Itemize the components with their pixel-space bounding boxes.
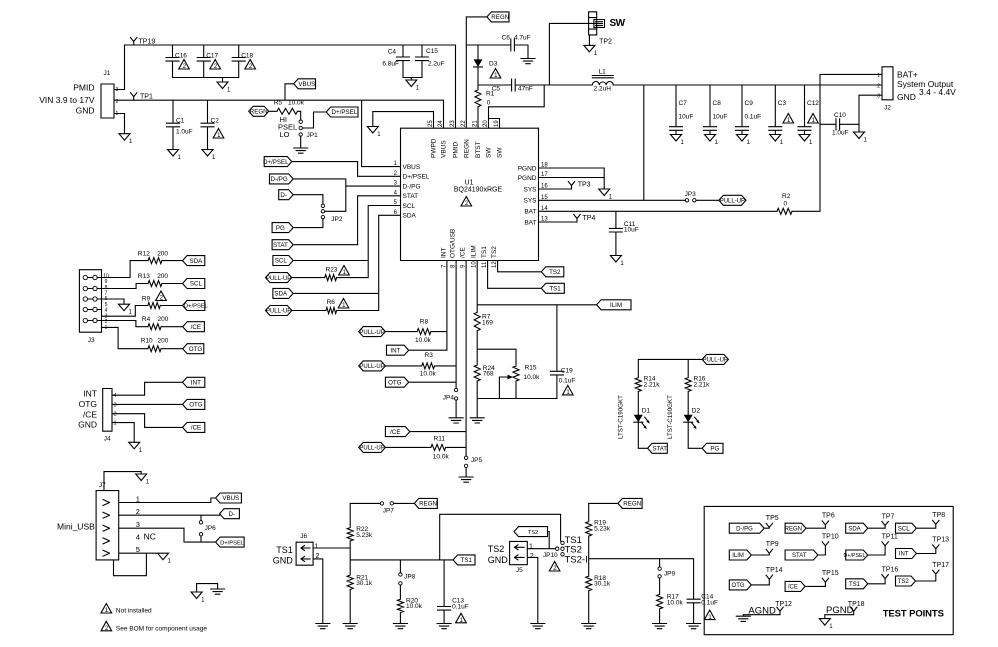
svg-text:SYS: SYS [523, 186, 537, 193]
svg-text:SCL: SCL [275, 258, 288, 265]
svg-text:D+/PSEL: D+/PSEL [403, 174, 430, 181]
svg-text:SW: SW [610, 18, 626, 29]
svg-text:ILIM: ILIM [471, 245, 478, 258]
svg-text:GND: GND [76, 106, 95, 116]
svg-text:PGND: PGND [518, 165, 537, 172]
svg-text:169: 169 [482, 320, 493, 327]
svg-text:ILIM: ILIM [732, 553, 744, 559]
svg-text:2: 2 [136, 507, 140, 516]
svg-text:Mini_USB: Mini_USB [57, 522, 95, 532]
svg-text:0: 0 [487, 100, 491, 107]
svg-text:PMID: PMID [453, 141, 460, 158]
svg-text:R2: R2 [782, 193, 791, 200]
svg-text:1: 1 [877, 73, 880, 79]
svg-text:GND: GND [488, 555, 509, 565]
svg-text:25: 25 [428, 120, 434, 127]
svg-text:C1: C1 [176, 118, 185, 125]
svg-text:2: 2 [877, 84, 880, 90]
svg-text:PULL-UP: PULL-UP [266, 309, 291, 315]
svg-text:23: 23 [450, 120, 456, 127]
svg-text:OTG: OTG [732, 583, 745, 589]
svg-text:10uF: 10uF [679, 114, 694, 121]
svg-text:TS1: TS1 [481, 246, 488, 258]
svg-text:U1: U1 [465, 180, 474, 187]
svg-text:200: 200 [158, 338, 169, 345]
svg-text:TP10: TP10 [822, 534, 839, 541]
svg-text:R10: R10 [141, 338, 153, 345]
svg-text:C10: C10 [834, 112, 846, 119]
svg-text:PULL-UP: PULL-UP [266, 276, 291, 282]
svg-text:R15: R15 [525, 364, 537, 371]
svg-text:PG: PG [710, 446, 719, 453]
svg-text:PULL-UP: PULL-UP [703, 358, 728, 364]
svg-text:SCL: SCL [898, 526, 910, 532]
svg-text:INT: INT [191, 380, 201, 387]
svg-text:SDA: SDA [848, 526, 860, 532]
svg-text:PG: PG [276, 225, 285, 232]
svg-text:VBUS: VBUS [298, 81, 315, 88]
svg-text:PMID: PMID [73, 83, 94, 93]
svg-text:TP13: TP13 [932, 537, 949, 544]
svg-text:JP2: JP2 [331, 216, 343, 223]
svg-text:JP8: JP8 [404, 574, 416, 581]
svg-text:2.21k: 2.21k [694, 382, 711, 389]
svg-text:VBUS: VBUS [222, 495, 239, 502]
svg-text:13: 13 [541, 217, 548, 223]
svg-text:C6: C6 [502, 35, 511, 42]
svg-text:BQ24190xRGE: BQ24190xRGE [454, 187, 503, 194]
svg-text:1.0uF: 1.0uF [176, 129, 193, 136]
svg-text:TS2: TS2 [488, 544, 505, 554]
svg-text:REGN: REGN [463, 139, 470, 158]
svg-text:0.1uF: 0.1uF [452, 603, 469, 610]
svg-text:R12: R12 [138, 251, 150, 258]
svg-text:R13: R13 [138, 273, 150, 280]
svg-text:JP9: JP9 [664, 570, 676, 577]
svg-text:15: 15 [541, 195, 548, 201]
svg-text:REGN: REGN [419, 501, 437, 508]
svg-text:/CE: /CE [390, 429, 400, 436]
svg-text:TP2: TP2 [599, 39, 612, 46]
svg-text:JP5: JP5 [471, 457, 483, 464]
svg-text:OTG: OTG [388, 379, 402, 386]
svg-text:4: 4 [114, 393, 117, 399]
svg-text:10uF: 10uF [624, 227, 639, 234]
svg-text:J2: J2 [884, 105, 891, 112]
svg-text:OTG: OTG [189, 402, 203, 409]
svg-text:TP9: TP9 [766, 541, 779, 548]
svg-text:/CE: /CE [191, 324, 201, 331]
svg-text:GND: GND [78, 419, 97, 429]
svg-text:D2: D2 [692, 408, 701, 415]
svg-text:JP10: JP10 [543, 552, 558, 559]
svg-text:2: 2 [530, 553, 534, 560]
svg-text:D-/PG: D-/PG [403, 183, 421, 190]
svg-text:J7: J7 [99, 482, 106, 489]
svg-text:J4: J4 [104, 435, 111, 442]
svg-text:D+/PSEL: D+/PSEL [220, 540, 245, 546]
svg-text:TP11: TP11 [882, 534, 898, 541]
svg-text:TS2: TS2 [528, 530, 538, 536]
svg-text:J1: J1 [104, 70, 111, 77]
svg-text:SCL: SCL [403, 203, 416, 210]
svg-text:D+/PSEL: D+/PSEL [332, 109, 358, 116]
svg-text:22: 22 [461, 120, 467, 127]
svg-text:R11: R11 [434, 436, 446, 443]
svg-text:OTG: OTG [189, 346, 203, 353]
svg-text:SW: SW [486, 147, 493, 158]
svg-text:C3: C3 [778, 100, 787, 107]
svg-text:STAT: STAT [403, 193, 419, 200]
svg-text:2: 2 [116, 99, 119, 105]
svg-text:0.1uF: 0.1uF [559, 377, 576, 384]
svg-text:1: 1 [136, 494, 140, 503]
svg-text:TP7: TP7 [882, 513, 895, 520]
svg-text:BAT: BAT [524, 209, 536, 216]
svg-text:0: 0 [784, 201, 788, 208]
svg-text:TP18: TP18 [848, 601, 865, 608]
svg-text:R4: R4 [142, 316, 151, 323]
svg-text:L1: L1 [599, 69, 607, 76]
svg-text:2.21k: 2.21k [644, 382, 661, 389]
svg-text:REGN: REGN [250, 109, 268, 116]
svg-text:3: 3 [116, 87, 119, 93]
svg-text:PULL-UP: PULL-UP [359, 364, 384, 370]
svg-text:14: 14 [541, 206, 548, 212]
svg-text:Not installed: Not installed [116, 608, 152, 615]
svg-text:D-: D- [228, 511, 235, 518]
svg-text:VBUS: VBUS [403, 164, 421, 171]
svg-text:6.8uF: 6.8uF [382, 61, 399, 68]
svg-text:STAT: STAT [652, 447, 667, 453]
svg-text:5: 5 [136, 545, 140, 554]
svg-text:2.2uH: 2.2uH [594, 86, 612, 93]
svg-text:5.23k: 5.23k [356, 532, 373, 539]
svg-text:10.0k: 10.0k [415, 337, 432, 344]
svg-text:R23: R23 [326, 267, 338, 274]
svg-text:SDA: SDA [403, 213, 417, 220]
svg-text:C9: C9 [745, 100, 754, 107]
svg-text:20: 20 [483, 120, 489, 127]
svg-text:JP3: JP3 [685, 191, 697, 198]
svg-text:2.2uF: 2.2uF [428, 61, 445, 68]
svg-text:PWPD: PWPD [431, 138, 438, 158]
svg-text:1: 1 [105, 325, 108, 331]
svg-text:TEST POINTS: TEST POINTS [883, 609, 944, 620]
svg-text:TP15: TP15 [822, 570, 839, 577]
svg-text:D-/PG: D-/PG [736, 526, 753, 532]
svg-text:12: 12 [492, 261, 498, 268]
svg-text:REGN: REGN [623, 501, 641, 508]
svg-text:TP14: TP14 [766, 567, 783, 574]
svg-text:PGND: PGND [518, 175, 537, 182]
svg-text:INT: INT [440, 248, 447, 259]
svg-text:/CE: /CE [460, 247, 467, 259]
svg-text:J6: J6 [300, 533, 307, 540]
svg-text:C5: C5 [492, 86, 501, 93]
svg-text:R3: R3 [425, 352, 434, 359]
svg-text:/CE: /CE [83, 409, 98, 419]
svg-text:C15: C15 [426, 48, 438, 55]
svg-text:JP6: JP6 [205, 525, 217, 532]
svg-text:REGN: REGN [785, 526, 802, 532]
svg-text:C18: C18 [241, 53, 253, 60]
svg-text:SCL: SCL [190, 281, 203, 288]
svg-text:TP8: TP8 [932, 512, 945, 519]
svg-text:10: 10 [472, 261, 478, 268]
svg-text:3: 3 [136, 520, 140, 529]
svg-text:D+/PSEL: D+/PSEL [184, 304, 209, 310]
svg-text:2: 2 [316, 553, 320, 560]
svg-text:TP16: TP16 [882, 566, 899, 573]
svg-text:J5: J5 [516, 567, 523, 574]
svg-text:R6: R6 [327, 299, 336, 306]
svg-text:TS2: TS2 [549, 269, 561, 276]
svg-text:200: 200 [157, 251, 168, 258]
svg-text:D-/PG: D-/PG [270, 176, 287, 183]
svg-text:TS1: TS1 [276, 545, 293, 555]
svg-text:INT: INT [899, 552, 909, 558]
svg-text:TP17: TP17 [932, 562, 949, 569]
svg-text:TS1: TS1 [849, 582, 861, 588]
svg-text:1: 1 [315, 544, 319, 551]
svg-text:C16: C16 [175, 53, 187, 60]
svg-text:LTST-C190GKT: LTST-C190GKT [617, 395, 624, 439]
svg-text:768: 768 [483, 371, 494, 378]
svg-text:GND: GND [897, 92, 916, 102]
svg-text:See BOM for component usage: See BOM for component usage [116, 625, 207, 632]
svg-text:10.0k: 10.0k [433, 454, 450, 461]
svg-text:0.1uF: 0.1uF [745, 114, 762, 121]
svg-text:INT: INT [83, 389, 97, 399]
svg-text:30.1k: 30.1k [594, 581, 611, 588]
svg-text:10.0k: 10.0k [406, 603, 423, 610]
svg-text:D+/PSEL: D+/PSEL [844, 553, 866, 559]
svg-text:10.0k: 10.0k [667, 599, 684, 606]
svg-text:19: 19 [494, 120, 500, 127]
svg-text:JP1: JP1 [307, 132, 319, 139]
svg-text:11: 11 [482, 261, 488, 268]
svg-text:1: 1 [114, 421, 117, 427]
svg-text:10.0k: 10.0k [288, 100, 305, 107]
svg-text:10.0k: 10.0k [524, 374, 541, 381]
svg-text:J3: J3 [88, 337, 95, 344]
svg-text:10.0k: 10.0k [420, 371, 437, 378]
svg-text:C19: C19 [561, 367, 573, 374]
svg-text:JP7: JP7 [383, 507, 395, 514]
svg-text:NC: NC [144, 532, 156, 542]
svg-text:TP3: TP3 [578, 182, 591, 189]
svg-text:AGND: AGND [748, 606, 776, 617]
svg-text:0.1uF: 0.1uF [701, 600, 718, 607]
svg-text:/CE: /CE [191, 425, 201, 432]
svg-text:BTST: BTST [475, 141, 482, 158]
svg-text:TS1: TS1 [461, 557, 473, 564]
svg-text:SDA: SDA [190, 258, 204, 265]
svg-text:REGN: REGN [491, 14, 509, 21]
svg-text:200: 200 [158, 316, 169, 323]
svg-text:C17: C17 [206, 53, 218, 60]
svg-text:D3: D3 [489, 61, 498, 68]
svg-text:INT: INT [390, 347, 400, 354]
svg-text:3.4 - 4.4V: 3.4 - 4.4V [919, 87, 956, 97]
svg-text:/CE: /CE [788, 585, 798, 591]
svg-text:LTST-C190GKT: LTST-C190GKT [667, 395, 674, 439]
svg-text:PULL-UP: PULL-UP [359, 330, 384, 336]
svg-text:VIN 3.9 to 17V: VIN 3.9 to 17V [39, 95, 95, 105]
svg-text:1: 1 [529, 544, 533, 551]
svg-text:200: 200 [157, 273, 168, 280]
svg-text:4.7uF: 4.7uF [514, 35, 531, 42]
svg-text:D+/PSEL: D+/PSEL [263, 159, 289, 166]
svg-text:PULL-UP: PULL-UP [720, 199, 745, 205]
svg-text:1.0uF: 1.0uF [832, 130, 849, 137]
svg-text:TS2: TS2 [491, 246, 498, 258]
svg-text:TP4: TP4 [583, 215, 596, 222]
svg-text:16: 16 [541, 184, 548, 190]
svg-text:SW: SW [497, 147, 504, 158]
svg-text:C12: C12 [807, 100, 819, 107]
svg-text:JP4: JP4 [443, 394, 455, 401]
svg-text:D1: D1 [642, 408, 651, 415]
svg-text:C2: C2 [211, 118, 220, 125]
svg-text:STAT: STAT [792, 553, 807, 559]
svg-text:4: 4 [136, 533, 140, 542]
svg-text:5.23k: 5.23k [594, 525, 611, 532]
svg-text:R8: R8 [420, 319, 429, 326]
svg-text:30.1k: 30.1k [356, 580, 373, 587]
svg-text:10uF: 10uF [713, 114, 728, 121]
svg-text:17: 17 [541, 172, 548, 178]
svg-text:C7: C7 [679, 100, 688, 107]
svg-text:TP19: TP19 [139, 39, 156, 46]
svg-text:OTG/USB: OTG/USB [450, 229, 457, 258]
svg-text:LO: LO [280, 130, 290, 139]
svg-text:VBUS: VBUS [441, 140, 448, 158]
svg-text:21: 21 [473, 120, 479, 127]
svg-text:TP6: TP6 [822, 513, 835, 520]
svg-text:SYS: SYS [523, 198, 537, 205]
svg-text:TS2-I: TS2-I [565, 554, 588, 565]
svg-text:C8: C8 [713, 100, 722, 107]
svg-text:R5: R5 [274, 100, 283, 107]
svg-text:1: 1 [116, 111, 119, 117]
svg-text:ILIM: ILIM [610, 302, 622, 309]
svg-text:3: 3 [877, 94, 880, 100]
svg-text:STAT: STAT [273, 242, 288, 249]
svg-text:D-: D- [280, 192, 287, 199]
svg-text:OTG: OTG [79, 399, 97, 409]
svg-text:PULL-UP: PULL-UP [359, 446, 384, 452]
svg-text:TS2: TS2 [898, 579, 910, 585]
svg-text:47nF: 47nF [518, 86, 533, 93]
svg-text:TP5: TP5 [766, 515, 779, 522]
svg-text:R9: R9 [142, 296, 151, 303]
svg-text:TP12: TP12 [775, 601, 792, 608]
svg-text:24: 24 [438, 120, 444, 127]
svg-text:3: 3 [114, 402, 117, 408]
svg-text:GND: GND [273, 556, 294, 566]
svg-text:2: 2 [114, 412, 117, 418]
svg-text:BAT: BAT [524, 219, 536, 226]
svg-text:SDA: SDA [274, 291, 288, 298]
svg-text:TS1: TS1 [549, 286, 561, 293]
svg-text:18: 18 [541, 163, 548, 169]
svg-text:C4: C4 [388, 49, 397, 56]
svg-text:TP1: TP1 [140, 94, 153, 101]
